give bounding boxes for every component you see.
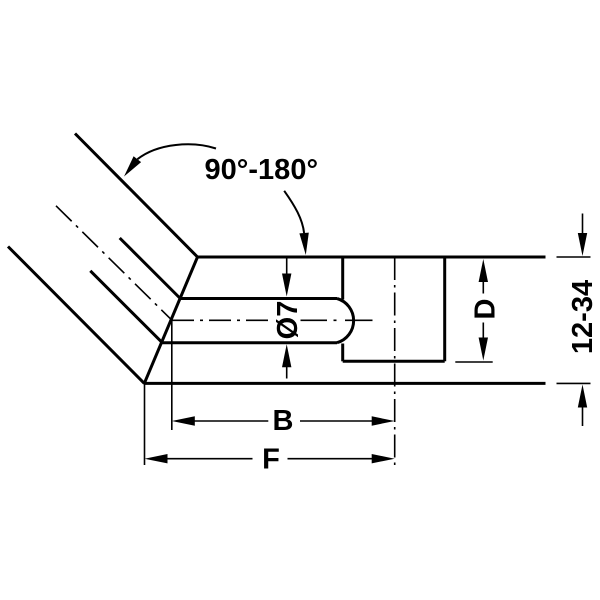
arrowhead 12-34 top [578, 233, 587, 256]
arrowhead F right [372, 454, 395, 463]
dim D top shaft [482, 280, 484, 294]
arrowhead leader left [124, 156, 141, 176]
pocket right wall [443, 257, 446, 361]
dim B line left [192, 420, 268, 422]
board bottom edge [144, 382, 545, 385]
extension line right top [557, 256, 591, 258]
pocket center line [394, 257, 396, 467]
dim B line right [300, 420, 373, 422]
angled hole wall lower [90, 271, 162, 343]
arrowhead B right [372, 416, 395, 425]
arrowhead dia7 bottom [282, 344, 291, 367]
dim D bottom shaft [482, 323, 484, 340]
hole rounded end [337, 299, 354, 343]
pocket bottom [343, 360, 445, 363]
svg-text:Ø7: Ø7 [272, 301, 304, 340]
angled board center line [56, 206, 172, 320]
svg-text:B: B [273, 405, 294, 437]
dim F left extension [144, 383, 146, 465]
hole center line right [301, 319, 373, 321]
extension line right bottom [557, 382, 591, 384]
arrowhead 12-34 bottom [578, 385, 587, 408]
arrowhead F left [145, 454, 168, 463]
hole center line left [172, 319, 270, 321]
dim F line left [166, 458, 253, 460]
leader curve right [284, 191, 304, 233]
angled board upper edge [75, 134, 198, 258]
arrowhead B left [172, 416, 195, 425]
board top edge [198, 256, 546, 259]
dim F line right [288, 458, 374, 460]
angled hole wall upper [120, 238, 181, 299]
dim B left extension [171, 320, 173, 430]
hole bottom line [162, 341, 337, 344]
svg-text:12-34: 12-34 [567, 280, 599, 354]
svg-text:90°-180°: 90°-180° [205, 154, 319, 186]
svg-text:F: F [262, 443, 280, 475]
dim D extension [455, 361, 492, 363]
hole top line [180, 297, 337, 300]
dim dia7 bottom shaft [286, 366, 288, 379]
arrowhead leader right [299, 233, 308, 255]
pocket left wall upper [341, 257, 344, 300]
miter face [144, 257, 197, 383]
svg-text:D: D [469, 299, 501, 320]
pocket left wall lower [341, 344, 344, 362]
arrowhead dia7 top [282, 274, 291, 297]
arrowhead D top [479, 259, 488, 282]
dim 12-34 top shaft [582, 214, 584, 236]
angled board lower edge [8, 247, 144, 384]
leader curve left [137, 144, 216, 159]
dim dia7 top shaft [286, 259, 288, 277]
arrowhead D bottom [479, 338, 488, 361]
dim 12-34 bottom shaft [582, 406, 584, 427]
